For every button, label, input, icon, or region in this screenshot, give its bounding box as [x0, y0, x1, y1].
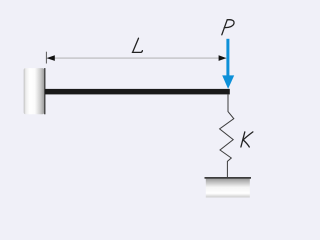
label K [241, 132, 253, 147]
wall fixed support [24, 68, 46, 114]
dimension arrowhead left [47, 55, 55, 61]
dimension tick at wall [45, 52, 47, 64]
force arrow P [222, 39, 234, 89]
dimension arrowhead right [219, 55, 227, 61]
spring K [220, 94, 234, 178]
label L [132, 38, 142, 52]
label P [222, 20, 234, 35]
ground block [205, 178, 252, 198]
beam [45, 89, 230, 95]
dimension line L [47, 57, 226, 59]
